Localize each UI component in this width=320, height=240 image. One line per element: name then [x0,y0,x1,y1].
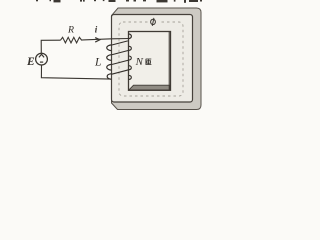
phi label [151,18,156,26]
window right wall (double line) [168,32,170,90]
core window (hole) [129,32,171,91]
magnetic core: front face [112,15,193,103]
wire: resistor to coil (slight scan tilt) [83,39,128,40]
flux path (dashed rounded rect) [119,22,183,96]
inductor coil wound on left leg: top hook [128,34,131,39]
cut-off text fragments along top edge [36,0,202,3]
page background [0,0,208,117]
wire: source top to top-left corner [41,40,60,53]
svg-text:E: E [26,56,35,68]
EMF source: bottom dash inside [40,61,43,63]
gap in dashes for phi label [148,18,159,27]
coil right hooks [129,46,132,50]
magnetic core: outer 3D silhouette (top/right/bottom thickness bands) [112,8,202,110]
wire: source bottom, down and right to coil [41,65,111,79]
coil left arcs [107,45,112,51]
svg-text:L: L [94,57,101,69]
EMF source E: circle [36,53,48,65]
window bottom wall (dark band) [129,85,170,90]
coil diagonals across leg [111,41,128,45]
current arrowhead i [95,38,100,43]
svg-text:N: N [135,56,144,68]
label 匝 (turns) drawn as strokes [146,59,152,65]
resistor R (zigzag) [61,37,84,43]
EMF source: arrow chevron (up) inside [39,54,44,57]
svg-text:R: R [67,25,74,36]
